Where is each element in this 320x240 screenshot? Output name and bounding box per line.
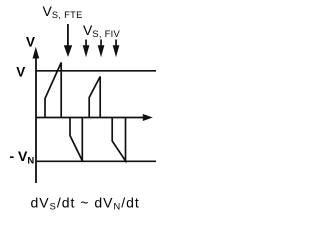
svg-text:- VN: - VN: [10, 148, 35, 166]
svg-text:dVS/dt ~ dVN/dt: dVS/dt ~ dVN/dt: [31, 195, 140, 212]
y-axis: [35, 55, 37, 183]
waveform pulse 2 (V_S,FIV): [89, 77, 100, 118]
svg-text:V: V: [16, 65, 25, 80]
x-axis arrowhead: [143, 114, 153, 121]
V level line: [36, 70, 156, 72]
small arrow 2: [98, 40, 105, 58]
y-axis arrowhead: [33, 47, 40, 59]
svg-text:V: V: [26, 35, 35, 50]
arrow for V_S,FTE: [64, 24, 72, 57]
waveform pulse 1 (V_S,FTE spike): [45, 63, 61, 118]
waveform negative pulse 1: [70, 118, 82, 161]
svg-text:VS, FTE: VS, FTE: [43, 3, 83, 20]
-V_N level line: [36, 160, 156, 162]
small arrow 3: [113, 40, 120, 58]
x-axis: [36, 117, 144, 119]
small arrow 1: [83, 40, 90, 58]
svg-text:VS, FIV: VS, FIV: [83, 22, 120, 39]
waveform negative pulse 2: [112, 118, 125, 161]
